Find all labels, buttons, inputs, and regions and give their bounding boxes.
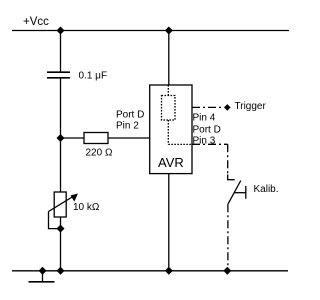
- pin label Port D Pin 2: [116, 110, 144, 132]
- node junction top rail / left bus: [57, 27, 65, 35]
- node junction left bus / resistor: [57, 134, 65, 142]
- switch S1 lever: [228, 181, 241, 205]
- potentiometer P1 body: [54, 192, 66, 217]
- potentiometer P1 wiper arrow: [49, 194, 79, 212]
- dash-dot pin3 line horizontal: [192, 143, 228, 145]
- wire wiper tail to bottom terminal: [49, 212, 61, 229]
- node junction bottom rail / left bus: [57, 267, 65, 275]
- wire bottom ground rail: [12, 270, 288, 272]
- svg-text:Kalib.: Kalib.: [254, 184, 279, 195]
- node junction wiper / left bus: [57, 225, 65, 233]
- svg-text:Port D: Port D: [116, 110, 144, 121]
- wire resistor left: [61, 137, 85, 139]
- wire resistor right to AVR: [108, 137, 150, 139]
- node junction bottom rail / kalib line: [223, 267, 231, 275]
- svg-text:Pin 2: Pin 2: [116, 121, 139, 132]
- wire top +Vcc rail: [12, 30, 289, 32]
- svg-text:Trigger: Trigger: [235, 101, 267, 112]
- capacitor C1 plates: [47, 72, 70, 78]
- node junction bottom rail / AVR wire: [165, 267, 173, 275]
- node Trigger diamond: [224, 104, 231, 111]
- dash-dot pin3 line vertical: [227, 144, 229, 174]
- wire AVR bottom to ground rail: [168, 174, 170, 271]
- svg-text:AVR: AVR: [158, 155, 184, 170]
- dotted internal wire bottom: [168, 120, 192, 144]
- ground symbol: [29, 271, 55, 282]
- dotted internal wire top: [167, 85, 169, 96]
- resistor R1 body: [84, 133, 108, 144]
- svg-text:Port D: Port D: [193, 124, 221, 135]
- wire AVR top supply: [168, 31, 170, 86]
- wire left bus lower: [60, 217, 62, 271]
- wire left bus upper: [60, 31, 62, 73]
- switch S1 actuator: [234, 186, 246, 199]
- svg-text:Pin 4: Pin 4: [193, 113, 216, 124]
- wire left bus middle: [60, 78, 62, 192]
- svg-text:10 kΩ: 10 kΩ: [73, 202, 100, 213]
- switch S1 top contact: [228, 175, 235, 180]
- node junction top rail / AVR wire: [165, 27, 173, 35]
- dotted internal block: [162, 96, 176, 121]
- node junction ground stub: [39, 267, 47, 275]
- dash-dot trigger line: [192, 106, 224, 108]
- dash-dot kalib line lower: [227, 204, 229, 271]
- svg-text:0.1 μF: 0.1 μF: [79, 71, 108, 82]
- op-amp U1 AVR box: [150, 85, 192, 174]
- svg-text:+Vcc: +Vcc: [23, 16, 49, 28]
- svg-text:220 Ω: 220 Ω: [86, 148, 113, 159]
